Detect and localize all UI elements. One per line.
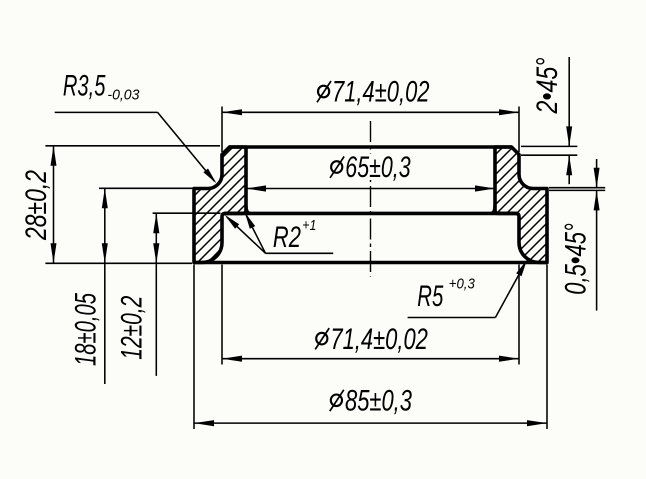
svg-text:71,4±0,02: 71,4±0,02: [330, 323, 428, 356]
dimension 12±0,2: extension line: [153, 212, 221, 214]
svg-text:-0,03: -0,03: [107, 87, 140, 104]
svg-text:28±0,2: 28±0,2: [20, 170, 53, 241]
svg-text:R5: R5: [417, 280, 443, 313]
dimension φ85±0,3: extension lines: [193, 265, 195, 430]
radius label R5+0,3: leader with arrow: [408, 317, 496, 319]
dimension 2×45° chamfer: extension lines: [521, 145, 577, 147]
dimension φ71,4±0,02 (bottom): dimension line with arrows: [222, 358, 519, 360]
dimension 0,5×45° chamfer: extension lines: [549, 187, 605, 189]
ring cross-section, right half (hatched): [495, 147, 547, 263]
svg-text:18±0,05: 18±0,05: [69, 293, 102, 366]
svg-text:65±0,3: 65±0,3: [345, 151, 411, 184]
counterbore ceiling edge: [224, 212, 517, 216]
knockout behind φ65 text over centerline: [327, 154, 413, 180]
dimension φ71,4±0,02 (bottom): extension lines: [221, 265, 223, 365]
svg-text:+1: +1: [302, 217, 316, 234]
top face edge: [229, 145, 512, 149]
centerline (part axis): [370, 121, 372, 277]
svg-text:85±0,3: 85±0,3: [345, 385, 412, 418]
ring cross-section, left half (hatched): [194, 147, 246, 263]
dimension φ65±0,3: value text: [331, 161, 342, 173]
dimension 18±0,05: extension line: [99, 187, 193, 189]
dimension 18±0,05: dimension line with arrows: [104, 188, 106, 384]
dimension φ65±0,3: dimension line with arrows: [246, 188, 495, 190]
R2 rounded-edge silhouette at right bore corner: [491, 206, 496, 214]
dimension 2×45° chamfer: dimension lines with arrows: [568, 57, 570, 146]
dimension φ85±0,3: value text: [331, 395, 342, 407]
dimension φ71,4±0,02 (bottom): value text: [316, 333, 327, 345]
radius label R3,5-0,03: leader with arrow: [55, 111, 158, 113]
svg-text:0,5•45°: 0,5•45°: [560, 223, 593, 295]
dimension φ71,4±0,02 (top): extension lines: [221, 107, 223, 153]
dimension 12±0,2: dimension line with arrows: [155, 213, 157, 376]
dimension φ71,4±0,02 (top): value text: [318, 86, 329, 98]
dimension 28±0,2: dimension line with arrows: [53, 146, 55, 263]
dimension φ85±0,3: dimension line with arrows: [194, 422, 547, 424]
bottom face edge: [194, 261, 547, 265]
svg-text:2•45°: 2•45°: [531, 58, 564, 115]
dimension 28±0,2: extension lines: [45, 145, 220, 147]
svg-text:12±0,2: 12±0,2: [115, 295, 148, 359]
svg-text:R2: R2: [273, 221, 301, 254]
radius label R2+1: leader with two arrows: [266, 252, 334, 254]
svg-text:71,4±0,02: 71,4±0,02: [332, 76, 430, 109]
R2 rounded-edge silhouette at left bore corner: [246, 206, 251, 214]
svg-text:+0,3: +0,3: [449, 276, 476, 293]
dimension φ71,4±0,02 (top): dimension line with arrows: [222, 111, 519, 113]
svg-text:R3,5: R3,5: [63, 69, 106, 102]
dimension 0,5×45° chamfer: dimension lines with arrows: [596, 159, 598, 188]
